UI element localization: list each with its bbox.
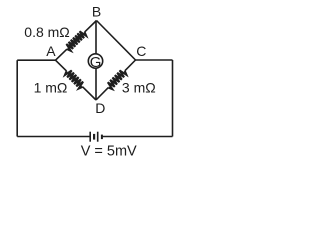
wire left side down — [16, 60, 18, 136]
battery plate short 1 — [93, 134, 95, 140]
svg-text:0.8 mΩ: 0.8 mΩ — [24, 24, 69, 40]
svg-text:3 mΩ: 3 mΩ — [122, 79, 156, 95]
svg-text:D: D — [95, 100, 105, 116]
wire D to resistor R3 — [96, 88, 108, 100]
wire top-right to C — [136, 59, 173, 61]
wire galvanometer down to D — [95, 68, 97, 100]
svg-text:V = 5mV: V = 5mV — [81, 143, 137, 159]
resistor R3 3 mOhm (D-C) — [108, 70, 127, 89]
wire resistor R2 to D — [83, 87, 96, 100]
wire resistor R1 to B — [85, 21, 97, 33]
wire B to C — [97, 21, 136, 61]
wire A to resistor R2 — [56, 60, 67, 71]
svg-text:C: C — [136, 43, 146, 59]
battery plate long 2 — [97, 132, 99, 142]
svg-text:B: B — [92, 4, 101, 20]
wire A to resistor R1 — [56, 49, 67, 60]
wire resistor R3 to C — [125, 60, 136, 71]
battery plate long 1 — [89, 132, 91, 142]
resistor R2 1 mOhm (A-D) — [65, 70, 83, 88]
wire battery to bottom-right corner — [102, 136, 173, 138]
resistor R1 0.8 mOhm (A-B) — [66, 31, 86, 51]
wire A to left edge — [17, 59, 55, 61]
wire right side up — [172, 60, 174, 137]
wire B down to galvanometer — [95, 21, 97, 55]
svg-text:A: A — [46, 43, 56, 59]
battery plate short 2 — [101, 135, 103, 140]
svg-text:G: G — [90, 54, 102, 71]
galvanometer G circle — [88, 54, 102, 68]
wire bottom-left to battery — [17, 136, 90, 138]
svg-text:1 mΩ: 1 mΩ — [34, 79, 68, 95]
